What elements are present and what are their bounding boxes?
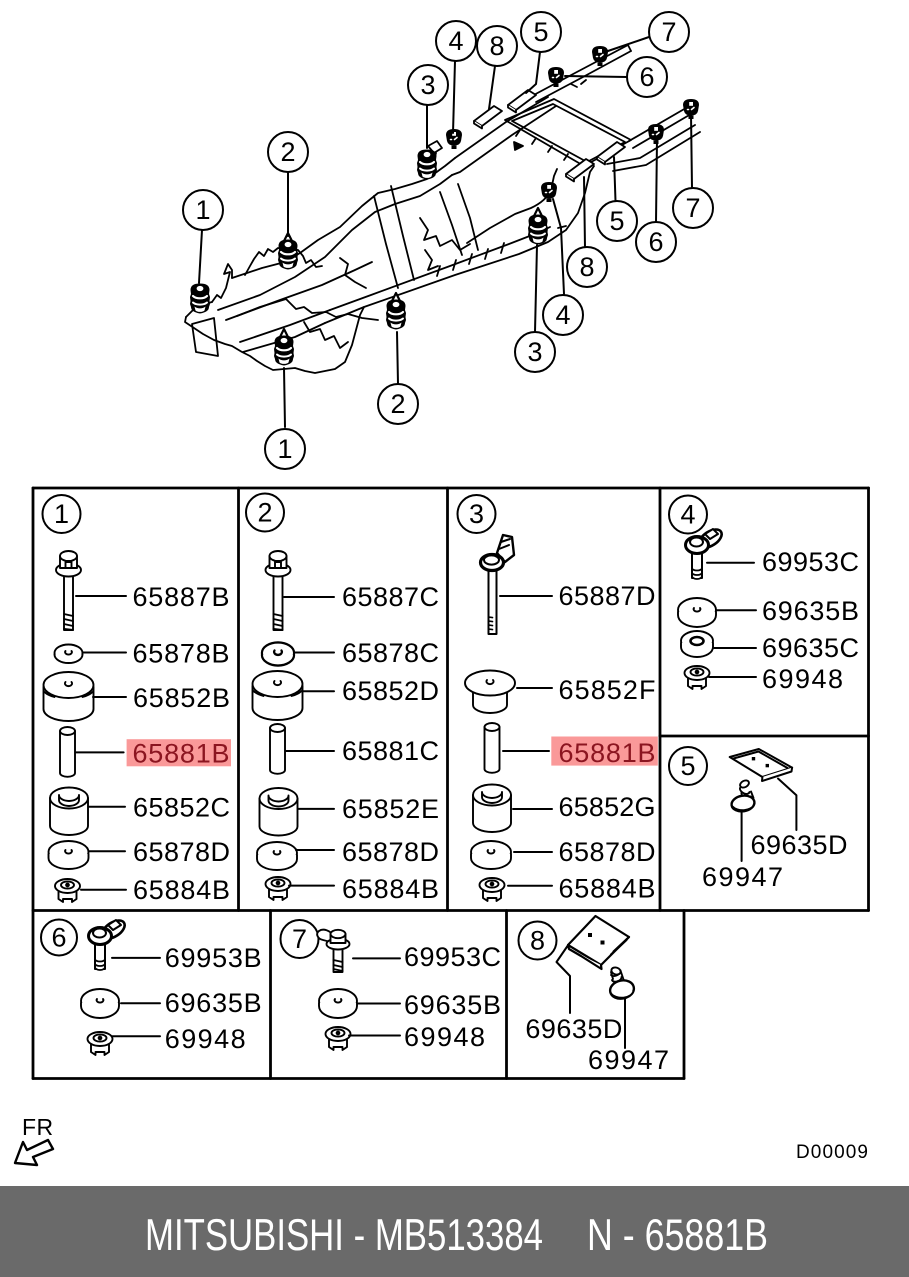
part nut 65884B <box>266 877 291 900</box>
wire rear-left rail upper <box>455 97 548 158</box>
svg-text:1: 1 <box>195 195 210 225</box>
svg-text:69948: 69948 <box>404 1022 485 1052</box>
callout circle 4 mid <box>543 295 583 335</box>
table box4/5 divider <box>660 735 869 738</box>
table row1 top edge <box>33 487 869 490</box>
leader 7 right <box>691 114 692 188</box>
svg-text:MITSUBISHI - MB513384: MITSUBISHI - MB513384 <box>145 1211 543 1260</box>
leader 65887B <box>76 595 126 597</box>
svg-text:69635B: 69635B <box>762 596 859 626</box>
leader 65884B <box>289 885 334 887</box>
wire bed dashes <box>571 80 586 87</box>
wire front cluster left jags <box>212 264 232 302</box>
leader 69947 <box>624 999 626 1048</box>
wire rear-right band2 top <box>607 125 695 164</box>
svg-text:8: 8 <box>530 926 545 956</box>
nut target 7 right <box>683 99 699 119</box>
leader 65881C <box>286 750 334 752</box>
svg-text:65852G: 65852G <box>559 792 656 822</box>
svg-text:1: 1 <box>54 499 69 529</box>
svg-text:69635B: 69635B <box>404 990 501 1020</box>
svg-text:65881C: 65881C <box>342 736 439 766</box>
box3 leader lines <box>500 596 552 886</box>
wire front cluster left edge <box>186 302 212 317</box>
svg-text:5: 5 <box>680 751 695 781</box>
leader 4 mid <box>553 199 564 294</box>
box circle 3 <box>458 495 496 533</box>
part bolt 69953C mirrored <box>317 930 349 972</box>
part screw 69947 <box>730 779 755 813</box>
svg-text:65881B: 65881B <box>133 739 230 769</box>
nut target 4 mid <box>541 182 557 202</box>
leader 1 bottom <box>284 368 285 427</box>
leader 6 right <box>656 139 657 222</box>
leader 69953B <box>112 957 160 959</box>
svg-text:69953C: 69953C <box>762 547 859 577</box>
pad target 8 top <box>474 106 502 129</box>
callout circle 8 mid <box>567 247 607 287</box>
highlight 65881B box1 <box>127 739 231 766</box>
wire bed inner outline <box>512 104 625 162</box>
wire far rail bottom flange <box>226 262 372 320</box>
svg-text:7: 7 <box>661 17 676 47</box>
table right edge row1 <box>867 488 870 911</box>
callout circle 1 bottom <box>265 429 305 469</box>
leader 69635B <box>358 1003 400 1005</box>
part washer 65878D <box>471 841 511 869</box>
box7 leader lines <box>349 958 400 1035</box>
bushing stack 3 lower <box>528 208 548 245</box>
part washer 69635B <box>319 989 357 1018</box>
svg-text:F: F <box>22 1114 36 1140</box>
wire bumps under rail <box>340 258 366 288</box>
wire kick upper flange <box>467 169 557 243</box>
callout circle 4 top <box>436 21 476 61</box>
leader 65852B <box>93 696 126 698</box>
svg-text:69953B: 69953B <box>165 943 262 973</box>
bushing stack 3 upper <box>417 150 437 180</box>
svg-text:65852D: 65852D <box>342 676 439 706</box>
leader 65852F <box>517 687 552 689</box>
leader 65887D <box>500 595 552 597</box>
svg-text:1: 1 <box>277 434 292 464</box>
table left edge <box>32 488 35 1079</box>
svg-text:2: 2 <box>257 498 272 528</box>
wire tunnel jagged line <box>237 299 378 320</box>
part washer 69635B <box>678 598 716 627</box>
box4 leader lines <box>707 563 756 677</box>
callout circle 7 top <box>649 12 689 52</box>
svg-text:69947: 69947 <box>588 1045 669 1075</box>
svg-text:8: 8 <box>579 252 594 282</box>
svg-text:65878B: 65878B <box>133 639 230 669</box>
wire bed parallelogram <box>505 99 631 166</box>
leader 65852D <box>303 690 334 692</box>
box circle 1 <box>43 495 81 533</box>
callout circle 6 right <box>636 222 676 262</box>
leader 2 bottom <box>397 332 398 384</box>
leader 5 right <box>614 157 616 201</box>
svg-text:65884B: 65884B <box>133 875 230 905</box>
box5 leader lines <box>742 779 797 862</box>
part plate 69635D <box>730 749 792 781</box>
svg-text:7: 7 <box>292 924 307 954</box>
svg-text:4: 4 <box>448 26 463 56</box>
callout circle 3 top <box>408 65 448 105</box>
svg-text:65852F: 65852F <box>559 675 656 705</box>
box circle 7 <box>281 920 319 958</box>
part bolt 69953B <box>89 917 128 970</box>
callout circle 2 bottom <box>378 384 418 424</box>
svg-text:D00009: D00009 <box>796 1142 868 1163</box>
part cushion 65852C <box>50 788 88 836</box>
wire inner bay jags <box>304 322 348 348</box>
table right edge row2 <box>683 911 686 1079</box>
bushing stack 1 front <box>190 284 210 314</box>
pad target 5 right <box>597 142 625 165</box>
svg-text:5: 5 <box>609 206 624 236</box>
wire near rail bottom edge <box>325 166 594 323</box>
svg-text:5: 5 <box>533 17 548 47</box>
svg-text:69635D: 69635D <box>525 1014 622 1044</box>
FR arrow <box>15 1140 53 1165</box>
part washer 69635B <box>81 989 119 1018</box>
box circle 6 <box>41 920 77 956</box>
svg-text:69948: 69948 <box>165 1024 246 1054</box>
wire bracket above bushing 3 <box>428 141 442 160</box>
leader 69948 <box>112 1035 160 1037</box>
leader 65887C <box>284 596 334 598</box>
wire near rail ticks <box>437 243 504 276</box>
callout circle 5 top <box>521 12 561 52</box>
svg-text:65878D: 65878D <box>342 837 439 867</box>
leader 65852G <box>513 808 552 810</box>
part washer 65878C <box>262 642 294 665</box>
wire rear-right band1 bottom <box>633 114 691 148</box>
wire front crossmember opening <box>192 318 218 356</box>
svg-text:69947: 69947 <box>702 862 783 892</box>
svg-text:65878C: 65878C <box>342 638 439 668</box>
svg-text:65878D: 65878D <box>133 837 230 867</box>
leader 69635D <box>778 779 796 831</box>
part washer 65878D <box>257 842 297 870</box>
svg-text:6: 6 <box>639 62 654 92</box>
nut target 4 upper <box>446 129 462 149</box>
part plate 69635D tilted <box>568 916 629 969</box>
callout circle 5 right <box>597 201 637 241</box>
leader 65852E <box>298 808 334 810</box>
leader 69947 <box>741 812 743 861</box>
svg-text:6: 6 <box>648 227 663 257</box>
part cushion 65852E <box>260 788 298 836</box>
callout circle 3 bottom <box>515 332 555 372</box>
leader 69635C <box>714 647 756 649</box>
wire far rail top edge <box>232 158 455 278</box>
bushing stack 2 rear <box>386 293 406 330</box>
box6 leader lines <box>112 958 160 1036</box>
leader 69953C <box>707 562 754 564</box>
leader 1 top <box>199 230 202 283</box>
svg-text:65887D: 65887D <box>559 581 656 611</box>
leader 65852C <box>89 806 125 808</box>
leader 5 top <box>526 52 540 93</box>
svg-text:7: 7 <box>685 193 700 223</box>
leader 65878B <box>83 652 126 654</box>
svg-text:69953C: 69953C <box>404 942 501 972</box>
svg-text:69948: 69948 <box>762 664 843 694</box>
part nut 69948 <box>88 1032 113 1055</box>
leader 8 top <box>489 66 495 109</box>
leader 65878D <box>296 849 334 851</box>
table divider box6/7 <box>269 911 272 1079</box>
svg-text:65852E: 65852E <box>342 794 439 824</box>
wire crossmember no2 <box>374 186 414 288</box>
wire rear-left rail lower <box>452 106 556 175</box>
callout circle 1 top <box>183 190 223 230</box>
pad target 5 top <box>508 90 536 113</box>
part cushion 65852G <box>473 785 511 833</box>
leader 65878C <box>294 652 334 654</box>
svg-text:65884B: 65884B <box>342 874 439 904</box>
part washer 65878D <box>49 841 89 869</box>
wire front cluster bottom contour <box>185 307 364 373</box>
callout circle 8 top <box>477 26 517 66</box>
box2 leader lines <box>284 597 334 886</box>
callout circle 7 right <box>673 188 713 228</box>
part sleeve 65881C <box>270 724 285 774</box>
pad target 8 right <box>566 159 594 182</box>
leader 65878D <box>514 851 552 853</box>
wire kick dashes <box>558 226 566 228</box>
part nut 69948 <box>326 1027 351 1050</box>
box number circles <box>41 494 707 960</box>
wire near rail top edge <box>330 227 550 310</box>
part screw 69947 <box>608 966 635 1000</box>
part nut 65884B <box>480 878 505 901</box>
wire bumps under rail 2 <box>425 250 438 270</box>
wire bed ticks <box>516 130 568 160</box>
table divider box1/2 <box>237 488 240 911</box>
table divider box3/4 <box>659 488 662 911</box>
wire rear crossbar bottom <box>536 51 631 102</box>
leader 7 top <box>605 37 649 52</box>
wire center jagged bracket <box>420 218 470 250</box>
leader 69635B <box>716 609 756 611</box>
svg-text:69635D: 69635D <box>751 830 848 860</box>
nut target 7 top <box>592 46 608 66</box>
leader 65884B <box>508 885 552 887</box>
CALLOUT CIRCLES <box>183 12 713 469</box>
svg-text:3: 3 <box>527 337 542 367</box>
part washer 69635C <box>681 631 713 657</box>
part sleeve 65881B <box>60 727 75 777</box>
wire near rail top-left extension <box>240 310 330 342</box>
wire crossmember no3 <box>440 184 478 255</box>
CALLOUT LEADERS <box>199 37 692 427</box>
leader 69953C <box>353 957 400 959</box>
footer bar <box>0 1186 909 1277</box>
wire rear crossbar cap <box>628 45 631 51</box>
wire front hump jagged edge <box>245 248 322 275</box>
wire rear-right band2 bottom <box>613 132 700 171</box>
svg-text:6: 6 <box>51 923 66 953</box>
svg-text:R: R <box>37 1114 54 1140</box>
table row2 bottom edge <box>33 1077 684 1080</box>
leader 69635B <box>121 1002 160 1004</box>
svg-text:8: 8 <box>489 31 504 61</box>
svg-text:65878D: 65878D <box>559 837 656 867</box>
wire bed direction mark <box>514 142 523 150</box>
leader 8 mid <box>584 177 585 248</box>
svg-text:3: 3 <box>469 499 484 529</box>
part bolt 65887B <box>56 551 81 630</box>
part bolt 65887D with clip <box>481 535 515 634</box>
callout circle 6 top <box>627 57 667 97</box>
svg-text:65887C: 65887C <box>342 582 439 612</box>
part cushion 65852D <box>253 671 303 720</box>
table divider box2/3 <box>446 488 449 911</box>
svg-text:3: 3 <box>420 70 435 100</box>
part bolt 65887C <box>266 551 291 630</box>
leader 4 top <box>453 61 455 133</box>
box8 leader lines <box>557 946 626 1048</box>
leader 3 top <box>426 105 428 148</box>
bushing stack 1 rear <box>274 329 294 366</box>
nut target 6 right <box>648 124 664 144</box>
wire far rail inner edge <box>218 175 452 310</box>
leader 3 bottom <box>535 245 537 332</box>
svg-text:N - 65881B: N - 65881B <box>587 1211 768 1260</box>
svg-text:2: 2 <box>390 389 405 419</box>
svg-text:65887B: 65887B <box>133 582 230 612</box>
box circle 2 <box>246 494 284 532</box>
svg-text:69635B: 69635B <box>165 988 262 1018</box>
svg-text:65881B: 65881B <box>559 738 656 768</box>
leader 69635D <box>557 946 571 1013</box>
box circle 5 <box>669 747 707 785</box>
part cushion 65852F <box>465 671 515 714</box>
leader 2 top <box>287 172 289 236</box>
svg-text:65852B: 65852B <box>133 683 230 713</box>
part cushion 65852B <box>44 672 94 721</box>
leader 65878D <box>89 850 125 852</box>
leader 69948 <box>349 1035 400 1037</box>
table divider box7/8 <box>505 911 508 1079</box>
leader 6 top <box>565 76 627 77</box>
nut target 6 top <box>548 67 564 87</box>
svg-text:65852C: 65852C <box>133 793 230 823</box>
svg-text:65884B: 65884B <box>559 874 656 904</box>
svg-text:4: 4 <box>555 300 570 330</box>
box circle 8 <box>519 922 557 960</box>
svg-text:69635C: 69635C <box>762 633 859 663</box>
svg-text:2: 2 <box>280 137 295 167</box>
part sleeve 65881B <box>485 723 500 773</box>
svg-text:4: 4 <box>680 500 695 530</box>
bushing stack 2 front <box>278 233 298 270</box>
leader 65881B <box>503 750 549 752</box>
box circle 4 <box>669 496 707 534</box>
box1 leader lines <box>76 596 126 890</box>
highlight 65881B box3 <box>551 737 658 766</box>
leader 65881B <box>76 751 124 753</box>
part bolt 69953C <box>686 526 725 579</box>
leader 65884B <box>81 889 126 891</box>
part nut 69948 <box>685 666 710 689</box>
wire rear-right band1 top <box>629 108 686 141</box>
table mid edge <box>33 909 869 912</box>
part washer 65878B <box>55 645 83 664</box>
leader 69948 <box>709 676 756 678</box>
wire rear crossbar top <box>530 45 628 97</box>
wire near rail bottom-left extension <box>243 323 325 352</box>
callout circle 2 top <box>268 132 308 172</box>
part nut 65884B <box>55 879 80 902</box>
